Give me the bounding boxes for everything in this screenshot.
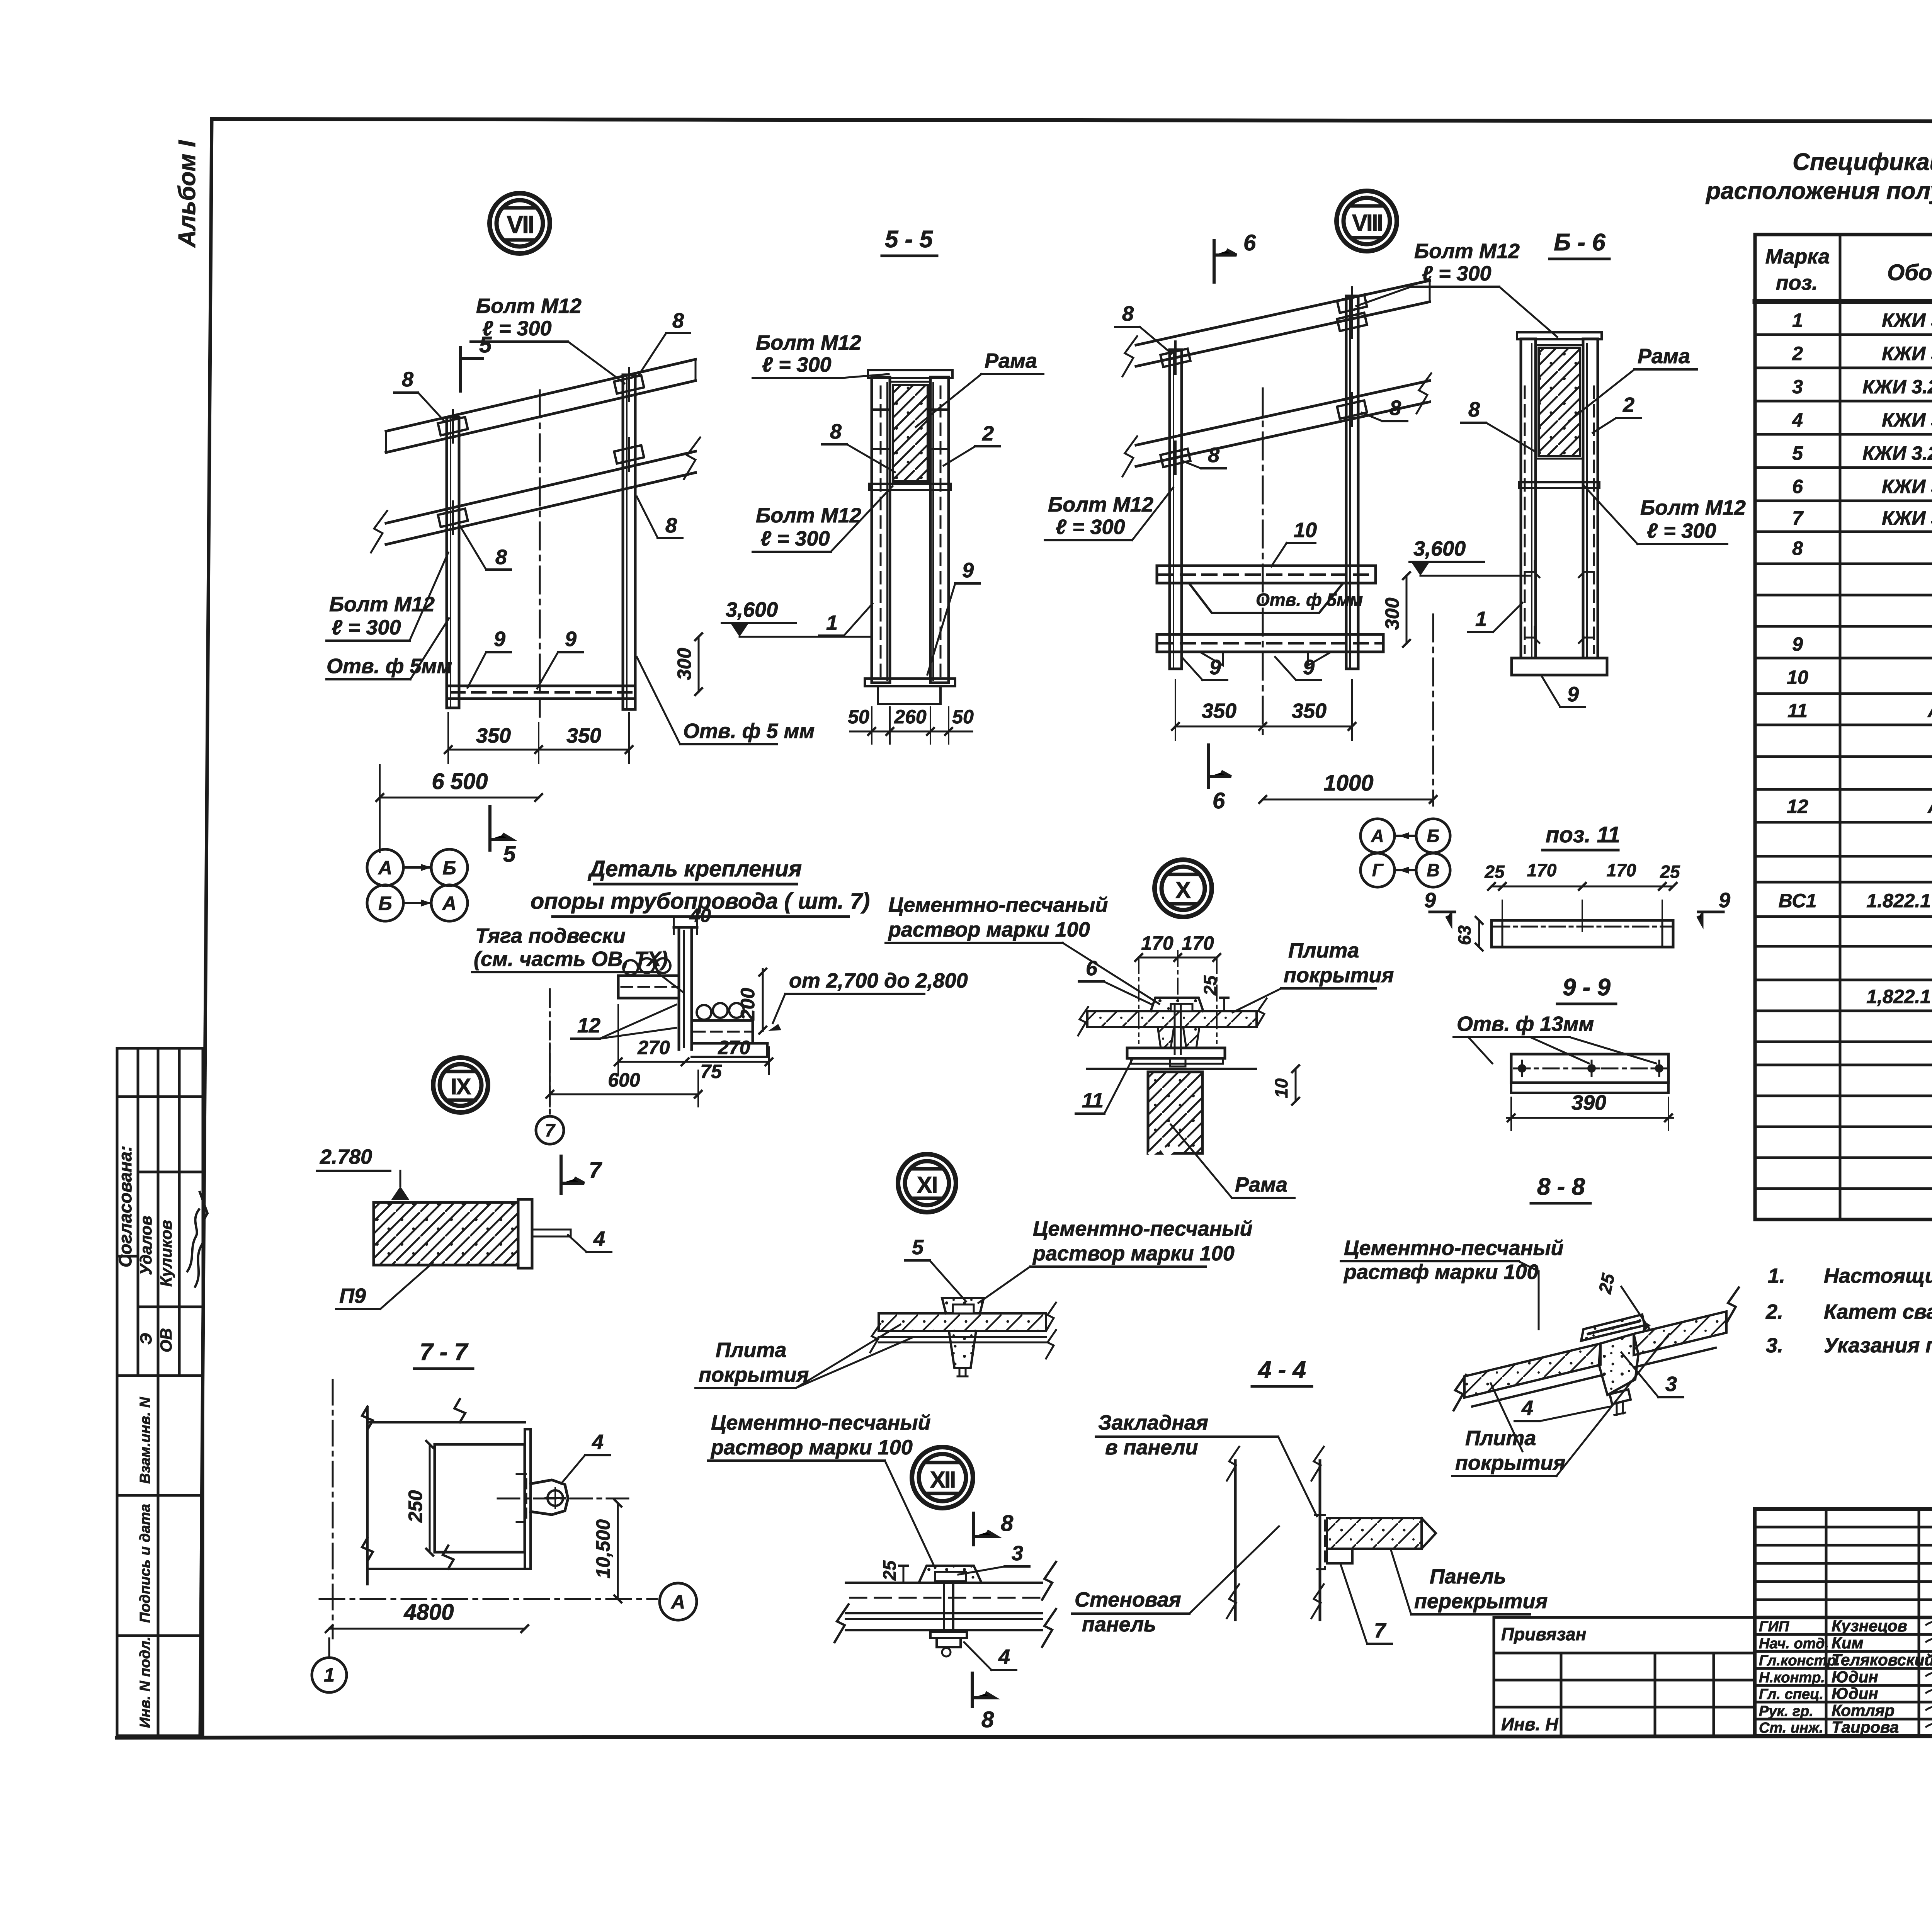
svg-text:АС - 15: АС - 15 [1927,700,1932,721]
svg-text:2: 2 [982,422,994,445]
svg-text:Марка: Марка [1765,245,1830,268]
svg-text:Взам.инв. N: Взам.инв. N [137,1396,153,1484]
XII mortar cap [919,1566,981,1583]
svg-text:3: 3 [1665,1372,1677,1396]
axis circles A B [367,849,403,886]
svg-text:Б: Б [442,857,456,879]
4-4 wall panel [1227,1447,1324,1620]
title block grid [1755,1509,1932,1736]
svg-text:350: 350 [1202,699,1236,723]
svg-text:7: 7 [1792,507,1804,529]
detail XII marker circle [912,1447,973,1508]
privyazan block [1494,1617,1755,1736]
svg-text:9: 9 [565,628,577,651]
svg-text:VIII: VIII [1352,210,1382,236]
XII bolt [944,1583,953,1632]
svg-text:3: 3 [1012,1542,1023,1565]
svg-text:7: 7 [589,1158,602,1183]
detail XI marker circle [898,1154,956,1212]
svg-text:ℓ = 300: ℓ = 300 [760,527,830,550]
svg-text:АС - 15: АС - 15 [1927,796,1932,817]
svg-text:4800: 4800 [403,1600,454,1625]
svg-text:2.780: 2.780 [320,1145,372,1168]
svg-text:170: 170 [1141,932,1173,954]
svg-text:Кузнецов: Кузнецов [1832,1617,1907,1635]
svg-text:8: 8 [1792,537,1803,559]
svg-text:от 2,700 до 2,800: от 2,700 до 2,800 [789,969,968,992]
detail VIII marker circle [1337,191,1397,251]
svg-text:1.: 1. [1768,1264,1785,1287]
svg-text:Б - 6: Б - 6 [1554,229,1605,256]
svg-text:8: 8 [1208,444,1219,467]
svg-text:Болт М12: Болт М12 [756,504,861,527]
svg-text:Юдин: Юдин [1832,1668,1878,1686]
svg-text:В: В [1427,860,1439,880]
svg-text:раствф марки 100: раствф марки 100 [1343,1260,1539,1284]
svg-text:6: 6 [1086,957,1098,980]
svg-text:2: 2 [1792,343,1803,364]
section mark 6 bottom [1209,745,1231,787]
svg-text:3.: 3. [1766,1334,1783,1357]
svg-text:Н.контр.: Н.контр. [1759,1670,1825,1686]
svg-text:раствор марки 100: раствор марки 100 [710,1436,913,1459]
svg-text:5 - 5: 5 - 5 [885,226,934,253]
svg-text:А: А [1371,826,1384,846]
section mark 5 top [461,348,482,391]
svg-text:200: 200 [737,988,759,1020]
svg-text:1: 1 [826,611,838,634]
svg-text:X: X [1175,877,1191,903]
7-7 bracket [531,1480,568,1515]
svg-text:А: А [442,893,456,914]
svg-text:6: 6 [1792,476,1803,497]
svg-text:8 - 8: 8 - 8 [1537,1173,1585,1200]
svg-text:8: 8 [1122,302,1134,325]
dim 350 350 [448,749,629,751]
svg-text:Теляковский: Теляковский [1832,1651,1932,1669]
svg-text:9: 9 [1719,889,1730,912]
svg-text:панель: панель [1082,1613,1156,1636]
detail VII marker circle [490,193,550,253]
svg-text:7 - 7: 7 - 7 [420,1339,469,1366]
svg-text:63: 63 [1454,925,1475,945]
svg-text:3,600: 3,600 [1413,537,1466,560]
svg-text:Болт М12: Болт М12 [1414,240,1520,263]
svg-text:4 - 4: 4 - 4 [1257,1357,1306,1383]
XI slab [879,1313,1046,1331]
svg-text:Отв. ф 13мм: Отв. ф 13мм [1457,1012,1594,1036]
svg-text:9 - 9: 9 - 9 [1563,974,1611,1001]
svg-text:поз.: поз. [1776,271,1818,294]
svg-text:25: 25 [1595,1271,1619,1296]
svg-text:600: 600 [608,1069,640,1091]
svg-text:11: 11 [1787,700,1808,721]
section 9-9 plate [1511,1054,1668,1083]
svg-text:25: 25 [1484,862,1505,882]
svg-text:7: 7 [545,1120,556,1140]
svg-text:КЖИ 3.2 - 5,00.00: КЖИ 3.2 - 5,00.00 [1882,310,1932,331]
svg-text:Настоящий лист см. с листо: Настоящий лист см. с листом АС-14. [1824,1264,1932,1287]
svg-text:Юдин: Юдин [1832,1684,1878,1702]
svg-text:Стеновая: Стеновая [1075,1588,1181,1611]
svg-text:КЖИ 3.2 - 5,00.00: КЖИ 3.2 - 5,00.00 [1882,343,1932,364]
svg-text:Гл. спец.: Гл. спец. [1759,1686,1823,1702]
svg-text:покрытия: покрытия [699,1363,809,1386]
pipes on shelves [623,960,638,975]
svg-text:ℓ = 300: ℓ = 300 [482,317,552,340]
X slab [1087,1011,1257,1027]
8-8 joint block [1599,1334,1638,1395]
svg-text:расположения полурам, плит: расположения полурам, плит покрытия, пер… [1705,178,1932,204]
svg-text:КЖИ 3.2 - 6.00,00 - 01: КЖИ 3.2 - 6.00,00 - 01 [1862,442,1932,464]
svg-text:300: 300 [673,648,695,680]
svg-text:ℓ = 300: ℓ = 300 [1422,262,1492,285]
svg-text:Котляр: Котляр [1832,1701,1895,1719]
detail VIII member 10 [1157,566,1376,613]
svg-text:Болт М12: Болт М12 [329,593,435,616]
poz 11 section marks 9 [1430,912,1455,924]
center line and circle 7 [549,989,551,1116]
axis circles A B G V [1361,819,1395,853]
left stamp block [117,1048,203,1736]
svg-text:10: 10 [1271,1078,1291,1098]
svg-text:4: 4 [592,1430,604,1454]
svg-text:поз. 11: поз. 11 [1546,822,1620,847]
svg-text:1: 1 [1475,607,1487,631]
title block signatures [1926,1614,1932,1727]
X support plates [1127,1048,1225,1058]
pipe support post [618,927,767,1057]
svg-text:4: 4 [998,1645,1010,1668]
svg-text:9: 9 [494,628,505,651]
svg-text:Ким: Ким [1832,1634,1864,1652]
svg-text:12: 12 [577,1014,600,1037]
svg-text:50: 50 [848,706,869,728]
svg-text:Цементно-песчаный: Цементно-песчаный [1033,1217,1252,1240]
svg-text:Рук. гр.: Рук. гр. [1759,1703,1813,1719]
svg-text:Тяга подвески: Тяга подвески [475,924,626,947]
5-5 bolt marks [873,410,947,449]
svg-text:ГИП: ГИП [1759,1619,1789,1635]
svg-text:А: А [670,1591,685,1613]
detail VII centerline [539,390,541,717]
svg-text:ℓ = 300: ℓ = 300 [332,616,401,639]
dim 300 VIII [1406,576,1408,643]
B-6 angle profiles [1526,561,1592,577]
svg-text:раствор марки 100: раствор марки 100 [1032,1242,1235,1265]
svg-text:Рама: Рама [1235,1173,1287,1196]
detail IX beam [374,1202,518,1265]
svg-text:Нач. отд.: Нач. отд. [1759,1636,1829,1652]
X mortar key [1151,998,1203,1011]
svg-text:Указания по антикоррозионной: Указания по антикоррозионной защите см. … [1824,1334,1932,1357]
svg-text:Удалов: Удалов [137,1216,155,1275]
XII slab band [835,1562,1056,1647]
svg-text:6: 6 [1213,788,1225,813]
svg-text:Альбом I: Альбом I [174,139,201,248]
svg-text:9: 9 [1303,656,1315,679]
svg-text:КЖИ 3.2 - 4,00,00: КЖИ 3.2 - 4,00,00 [1882,507,1932,529]
svg-text:8: 8 [1468,398,1480,421]
svg-text:50: 50 [952,706,974,728]
svg-text:1.822.1 - 2/82 Вып. 1: 1.822.1 - 2/82 Вып. 1 [1866,890,1932,912]
svg-text:КЖИ 3.2 - 7.00.00: КЖИ 3.2 - 7.00.00 [1882,409,1932,431]
svg-text:Болт М12: Болт М12 [1640,496,1746,519]
svg-text:Ст. инж.: Ст. инж. [1759,1720,1823,1736]
section 7-7 view [332,1380,334,1638]
detail IX marker circle [433,1058,488,1112]
svg-text:Спецификация металлических э: Спецификация металлических элементов к с… [1793,149,1932,175]
drawing frame border [117,119,1932,1738]
svg-text:Подпись и дата: Подпись и дата [137,1504,153,1623]
svg-text:1,822.1 - 2/82 Вып. 1: 1,822.1 - 2/82 Вып. 1 [1866,986,1932,1007]
svg-text:7: 7 [1374,1619,1387,1642]
svg-text:9: 9 [1567,683,1579,706]
detail VIII view [1122,281,1431,669]
detail VIII bolts [1160,349,1190,367]
svg-text:VII: VII [507,211,533,238]
dim 6500 [380,797,539,799]
svg-text:170: 170 [1527,860,1557,880]
poz 11 plate [1492,920,1673,947]
svg-text:ℓ = 300: ℓ = 300 [1056,515,1125,539]
svg-text:раствор марки 100: раствор марки 100 [888,918,1090,941]
7-7 axis A [320,1598,657,1600]
dim 200 [762,969,764,1031]
8-8 sloped slabs [1454,1287,1739,1410]
svg-text:XII: XII [930,1467,955,1493]
svg-text:КЖИ 3.2 - 6,00.00 - 02: КЖИ 3.2 - 6,00.00 - 02 [1862,376,1932,398]
svg-text:Катет сварных швов Δш = 6мм: Катет сварных швов Δш = 6мм [1824,1300,1932,1323]
svg-text:2: 2 [1622,393,1634,417]
svg-text:Куликов: Куликов [157,1220,175,1287]
svg-text:П9: П9 [339,1284,366,1308]
detail VII bolts [438,417,468,435]
svg-text:8: 8 [1001,1511,1014,1536]
svg-text:25: 25 [1200,975,1220,996]
svg-text:Отв. ф 5мм: Отв. ф 5мм [1256,590,1363,610]
7-7 dim 250 [429,1444,431,1552]
svg-text:Болт М12: Болт М12 [1048,493,1153,516]
svg-text:Закладная: Закладная [1098,1411,1208,1434]
svg-text:ℓ = 300: ℓ = 300 [1647,519,1716,543]
svg-text:11: 11 [1082,1089,1104,1112]
detail VIII centerlines [1262,388,1264,734]
svg-text:Привязан: Привязан [1501,1624,1586,1644]
poz 11 dims [1492,886,1673,888]
svg-text:10: 10 [1294,519,1317,542]
svg-text:КЖИ 3.2 - 6.00,00: КЖИ 3.2 - 6.00,00 [1882,476,1932,497]
svg-text:9: 9 [1209,656,1221,679]
dim 300 vertical [698,637,700,692]
svg-text:270: 270 [718,1037,750,1058]
svg-text:8: 8 [1389,396,1401,420]
svg-text:8: 8 [665,514,677,537]
svg-text:10: 10 [1787,667,1808,688]
svg-text:Плита: Плита [1465,1427,1536,1450]
svg-text:Обозначение: Обозначение [1887,260,1932,285]
svg-text:8: 8 [830,420,842,443]
svg-text:6 500: 6 500 [432,769,488,794]
specification table grid [1755,235,1932,1219]
svg-text:3,600: 3,600 [726,598,778,621]
svg-text:5: 5 [503,842,516,867]
X dims 170 170 [1139,957,1217,959]
svg-text:Цементно-песчаный: Цементно-песчаный [711,1411,930,1434]
dim 10 X [1295,1069,1297,1101]
svg-text:350: 350 [566,724,601,747]
svg-text:8: 8 [495,546,507,569]
svg-text:9: 9 [962,559,974,582]
7-7 axis circle 1 [328,1638,330,1658]
section B-6 view [1512,332,1607,675]
svg-text:2.: 2. [1765,1300,1783,1323]
section marks 8 XII [974,1513,996,1545]
4-4 embedded plate [1315,1515,1325,1569]
svg-text:Э: Э [137,1333,155,1345]
svg-text:Цементно-песчаный: Цементно-песчаный [1344,1236,1563,1260]
section mark 4 left [1494,1443,1496,1445]
svg-text:Инв. Н: Инв. Н [1501,1714,1558,1734]
svg-text:Инв. N подл.: Инв. N подл. [137,1637,153,1728]
svg-text:3: 3 [1792,376,1803,398]
7-7 dim 10500 [617,1503,619,1599]
svg-text:ℓ = 300: ℓ = 300 [762,353,832,376]
svg-text:в панели: в панели [1105,1436,1198,1459]
svg-text:350: 350 [476,724,511,747]
detail X marker circle [1155,860,1212,917]
svg-text:250: 250 [405,1490,426,1523]
svg-text:Таирова: Таирова [1832,1718,1899,1736]
svg-text:покрытия: покрытия [1455,1451,1565,1475]
svg-text:390: 390 [1571,1091,1606,1114]
svg-text:8: 8 [672,309,684,332]
svg-text:25: 25 [1660,862,1680,882]
svg-text:Цементно-песчаный: Цементно-песчаный [888,893,1108,917]
svg-text:4: 4 [1521,1396,1533,1420]
svg-text:300: 300 [1381,597,1403,630]
detail VIII member lower [1157,634,1383,665]
svg-text:4: 4 [1792,409,1803,431]
7-7 dim 4800 [329,1628,525,1630]
svg-text:Б: Б [378,893,392,914]
left shelf [618,976,679,998]
svg-text:1000: 1000 [1323,770,1373,796]
svg-text:ВС1: ВС1 [1779,890,1817,912]
dim 270 270 [618,1061,769,1063]
svg-text:10,500: 10,500 [592,1519,614,1578]
dim 350 350 VIII [1175,726,1352,728]
svg-text:Согласована:: Согласована: [115,1146,135,1267]
dim 600 75 [550,1094,698,1095]
svg-text:Отв. ф 5 мм: Отв. ф 5 мм [683,719,815,743]
svg-text:9: 9 [1792,633,1803,655]
svg-text:Отв. ф 5мм: Отв. ф 5мм [327,655,452,678]
stamp signatures [187,1192,207,1287]
section mark 7 right [561,1156,584,1193]
svg-text:Болт М12: Болт М12 [756,331,861,354]
svg-text:350: 350 [1292,699,1327,723]
svg-text:Г: Г [1372,860,1384,880]
svg-text:перекрытия: перекрытия [1414,1590,1548,1613]
svg-text:Плита: Плита [716,1338,786,1362]
svg-text:4: 4 [593,1227,605,1250]
dim 50 260 50 [850,731,972,733]
svg-text:1: 1 [1792,310,1803,331]
poz 11 dim 63 [1478,920,1480,947]
svg-text:Деталь крепления: Деталь крепления [587,856,802,881]
svg-text:Рама: Рама [985,349,1037,372]
svg-text:IX: IX [451,1074,471,1099]
X frame column [1148,1072,1202,1153]
svg-text:170: 170 [1182,932,1214,954]
X bolt shaft [1175,1005,1181,1054]
svg-text:40: 40 [689,905,711,926]
svg-text:1: 1 [324,1664,335,1686]
detail VII view [371,359,700,709]
svg-text:260: 260 [894,706,927,728]
section 5-5 view [865,370,955,704]
svg-text:Гл.констр.: Гл.констр. [1759,1653,1840,1669]
svg-text:75: 75 [700,1061,722,1082]
svg-text:Рама: Рама [1638,345,1690,368]
svg-text:5: 5 [912,1236,924,1259]
svg-text:ОВ: ОВ [157,1328,175,1352]
svg-text:XI: XI [917,1172,937,1198]
svg-text:Б: Б [1427,826,1440,846]
svg-text:12: 12 [1787,796,1808,817]
section mark 5 bottom [490,807,512,850]
section mark 6 top [1214,240,1236,282]
svg-text:170: 170 [1607,860,1636,880]
dim 390 [1507,1117,1673,1119]
right shelf [692,1020,767,1043]
svg-text:8: 8 [981,1707,994,1732]
svg-text:Болт М12: Болт М12 [476,294,582,318]
svg-text:8: 8 [402,368,413,391]
svg-text:покрытия: покрытия [1284,964,1394,987]
svg-text:Панель: Панель [1430,1565,1506,1588]
svg-text:5: 5 [1792,442,1803,464]
svg-text:270: 270 [637,1037,670,1058]
dim 1000 VIII [1263,799,1433,801]
XI mortar key [942,1298,984,1313]
X ribs under slab [1158,1027,1174,1048]
4-4 floor panel [1327,1518,1422,1549]
svg-text:А: А [378,857,392,879]
svg-text:6: 6 [1243,230,1256,255]
svg-text:25: 25 [879,1560,900,1581]
svg-text:9: 9 [1424,889,1436,912]
svg-text:Плита: Плита [1288,939,1359,962]
